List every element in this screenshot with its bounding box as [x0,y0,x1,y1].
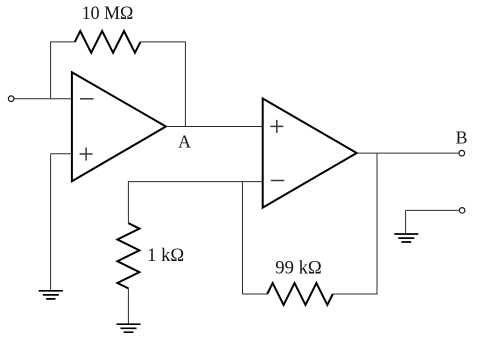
op-amp U2 [263,99,357,208]
ground 1 [39,291,63,299]
wire lower vertical [405,210,407,233]
U1 plus sign (non-inverting input) [80,148,93,161]
U1 minus sign (inverting input) [80,98,94,100]
wire U1 output to U2 non-inverting input [166,126,263,128]
svg-text:10 MΩ: 10 MΩ [82,4,134,24]
terminal B circle [459,150,465,156]
lower right terminal [459,208,465,214]
svg-text:1 kΩ: 1 kΩ [147,246,184,266]
ground 2 [117,324,141,332]
wire down to ground 1 [50,154,52,291]
svg-text:99 kΩ: 99 kΩ [275,258,322,278]
resistor R2 1 kΩ [117,223,139,288]
op-amp U1 [72,72,166,181]
wire lower terminal to ground 3 [406,209,460,211]
wire 1k bottom lead [127,288,129,324]
wire U2 inverting input horizontal [128,181,262,183]
input terminal [8,96,14,102]
resistor R1 10 MΩ [75,31,141,53]
wire U2 output to terminal B [357,152,459,154]
svg-text:A: A [178,132,191,152]
wire U1 non-inverting input [51,153,72,155]
svg-text:B: B [456,127,468,147]
wire bottom lead left of R3 [243,293,268,295]
U2 plus sign (non-inverting input) [270,120,283,133]
wire top lead left of R1 [50,41,75,43]
wire feedback right vertical up to output [376,153,378,295]
U2 minus sign (inverting input) [271,180,285,182]
wire 1k top lead [127,181,129,223]
ground 3 [394,234,418,242]
wire feedback left vertical [50,42,52,99]
wire feedback junction vertical [242,182,244,294]
wire top lead right of R1 [140,41,185,43]
resistor R3 99 kΩ [267,283,333,305]
wire input to U1 inverting input [14,98,72,100]
wire feedback right vertical [184,41,186,126]
wire bottom lead right of R3 [333,293,377,295]
